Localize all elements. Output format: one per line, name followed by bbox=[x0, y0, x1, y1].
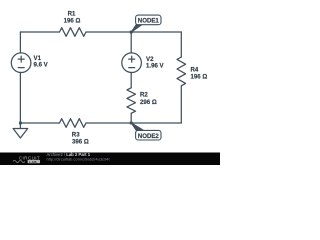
svg-text:396 Ω: 396 Ω bbox=[72, 139, 89, 146]
svg-text:NODE1: NODE1 bbox=[138, 18, 160, 25]
svg-text:296 Ω: 296 Ω bbox=[140, 99, 157, 106]
wire middle vertical mid bbox=[130, 72, 132, 87]
svg-text:196 Ω: 196 Ω bbox=[191, 74, 208, 81]
wire top-middle horizontal bbox=[86, 31, 131, 33]
junction node at NODE2 bbox=[130, 122, 133, 125]
NODE1 flag pointer bbox=[131, 25, 142, 33]
wire top-right horizontal bbox=[131, 31, 181, 33]
voltage source V2 bbox=[122, 53, 142, 73]
wire middle vertical lower bbox=[130, 113, 132, 123]
ground bbox=[13, 123, 28, 138]
svg-text:http://circuitlab.com/c/9a62r4: http://circuitlab.com/c/9a62r4u3c94t bbox=[47, 156, 111, 161]
NODE2 flag box bbox=[136, 130, 161, 140]
svg-text:196 Ω: 196 Ω bbox=[64, 17, 81, 24]
junction node at NODE1 bbox=[130, 31, 133, 34]
wire right vertical upper bbox=[180, 32, 182, 57]
NODE1 flag box bbox=[136, 15, 161, 25]
CircuitLab logo wordmark bbox=[13, 156, 40, 164]
svg-text:R2: R2 bbox=[140, 91, 148, 98]
resistor R1 bbox=[60, 28, 87, 37]
resistor R4 bbox=[177, 57, 186, 86]
svg-text:LAB: LAB bbox=[29, 160, 37, 164]
wire middle vertical upper bbox=[130, 32, 132, 53]
footer bar bbox=[0, 153, 220, 166]
wire bottom-right horizontal bbox=[131, 122, 181, 124]
svg-text:NODE2: NODE2 bbox=[138, 133, 160, 140]
wire left vertical lower bbox=[19, 72, 21, 123]
svg-text:R4: R4 bbox=[191, 66, 199, 73]
resistor R3 bbox=[60, 119, 87, 128]
wire right vertical lower bbox=[180, 86, 182, 123]
svg-text:R3: R3 bbox=[72, 132, 80, 139]
svg-text:9.6 V: 9.6 V bbox=[34, 62, 49, 69]
resistor R2 bbox=[127, 88, 136, 114]
wire bottom-left horizontal bbox=[20, 122, 59, 124]
wire left vertical upper bbox=[19, 32, 21, 53]
NODE2 flag pointer bbox=[131, 123, 144, 131]
voltage source V1 bbox=[11, 53, 31, 73]
wire top-left horizontal bbox=[20, 31, 59, 33]
junction node at ground bbox=[19, 122, 22, 125]
wire bottom-middle horizontal bbox=[86, 122, 131, 124]
svg-text:1.96 V: 1.96 V bbox=[146, 63, 165, 70]
